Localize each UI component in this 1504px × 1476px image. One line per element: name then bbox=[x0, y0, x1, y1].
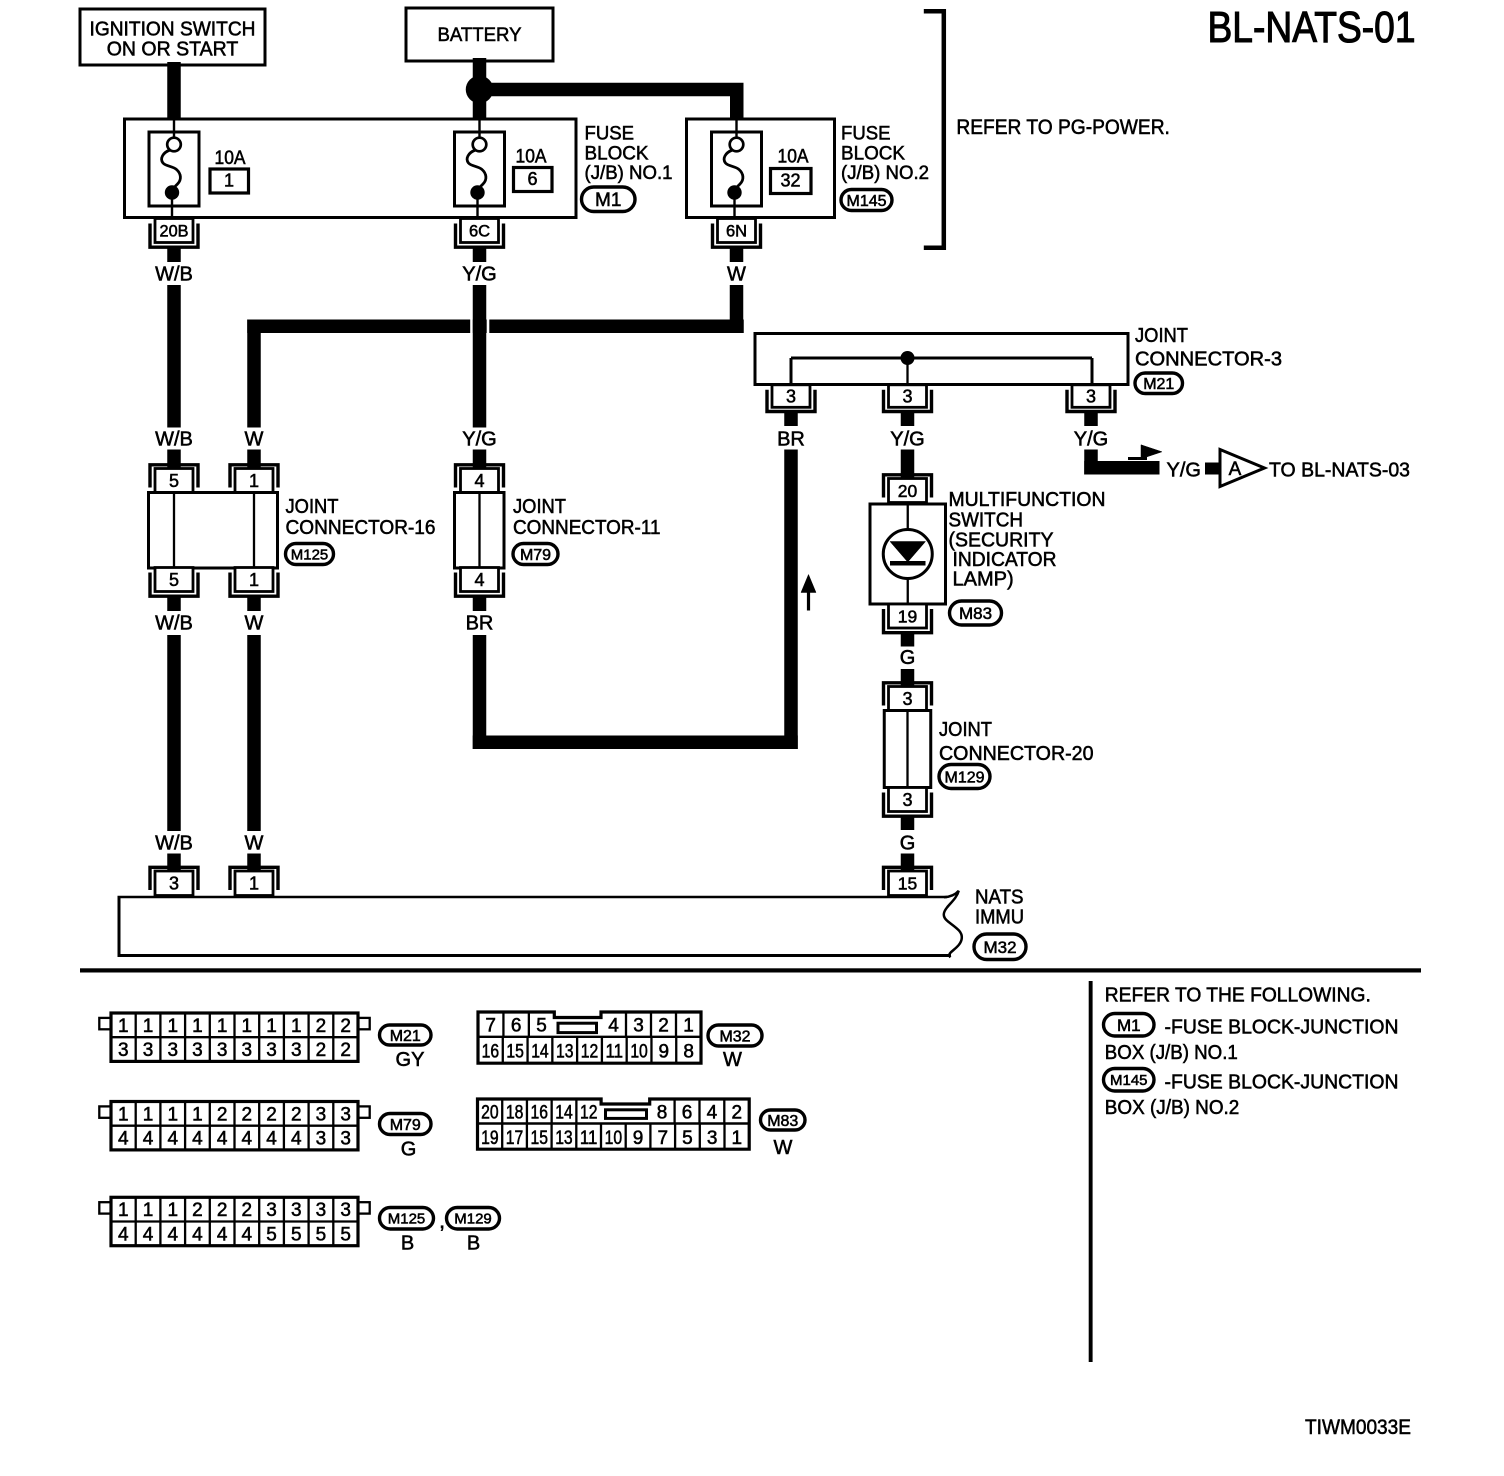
svg-text:IGNITION SWITCH: IGNITION SWITCH bbox=[90, 19, 256, 41]
svg-text:20: 20 bbox=[481, 1102, 499, 1123]
svg-text:3: 3 bbox=[266, 1200, 277, 1221]
svg-text:Y/G: Y/G bbox=[1167, 460, 1201, 482]
svg-text:3: 3 bbox=[707, 1128, 718, 1149]
svg-text:M32: M32 bbox=[983, 938, 1016, 957]
svg-text:6: 6 bbox=[682, 1102, 693, 1123]
svg-text:1: 1 bbox=[217, 1016, 228, 1037]
svg-text:19: 19 bbox=[481, 1128, 499, 1149]
svg-text:BL-NATS-01: BL-NATS-01 bbox=[1208, 4, 1416, 52]
svg-text:2: 2 bbox=[340, 1040, 351, 1061]
svg-text:ON OR START: ON OR START bbox=[107, 39, 239, 61]
svg-text:2: 2 bbox=[316, 1016, 327, 1037]
svg-text:20: 20 bbox=[898, 481, 918, 501]
svg-text:Y/G: Y/G bbox=[462, 264, 496, 286]
svg-text:B: B bbox=[401, 1233, 414, 1255]
svg-text:1: 1 bbox=[192, 1016, 203, 1037]
svg-text:5: 5 bbox=[536, 1016, 547, 1037]
svg-text:Y/G: Y/G bbox=[890, 429, 924, 451]
svg-text:2: 2 bbox=[242, 1104, 253, 1125]
svg-text:1: 1 bbox=[192, 1104, 203, 1125]
svg-text:3: 3 bbox=[192, 1040, 203, 1061]
svg-text:3: 3 bbox=[242, 1040, 253, 1061]
svg-text:CONNECTOR-20: CONNECTOR-20 bbox=[939, 743, 1094, 765]
svg-text:11: 11 bbox=[580, 1128, 598, 1149]
svg-text:W: W bbox=[774, 1137, 793, 1159]
svg-text:Y/G: Y/G bbox=[1074, 429, 1108, 451]
svg-text:1: 1 bbox=[242, 1016, 253, 1037]
svg-text:BR: BR bbox=[777, 429, 805, 451]
svg-text:1: 1 bbox=[249, 874, 259, 894]
svg-text:16: 16 bbox=[531, 1102, 549, 1123]
svg-text:M129: M129 bbox=[944, 769, 984, 786]
svg-text:1: 1 bbox=[167, 1200, 178, 1221]
svg-text:W: W bbox=[245, 613, 264, 635]
svg-text:(J/B) NO.2: (J/B) NO.2 bbox=[841, 162, 929, 184]
svg-text:3: 3 bbox=[291, 1200, 302, 1221]
svg-text:W/B: W/B bbox=[155, 613, 193, 635]
svg-text:M1: M1 bbox=[595, 190, 621, 211]
svg-text:15: 15 bbox=[898, 874, 917, 894]
svg-text:MULTIFUNCTION: MULTIFUNCTION bbox=[949, 489, 1106, 511]
svg-text:CONNECTOR-16: CONNECTOR-16 bbox=[286, 517, 436, 539]
svg-text:3: 3 bbox=[316, 1200, 327, 1221]
svg-text:M79: M79 bbox=[390, 1117, 421, 1134]
svg-text:10A: 10A bbox=[215, 148, 246, 169]
svg-text:4: 4 bbox=[474, 570, 484, 590]
svg-text:REFER TO THE FOLLOWING.: REFER TO THE FOLLOWING. bbox=[1105, 985, 1371, 1007]
svg-text:-FUSE BLOCK-JUNCTION: -FUSE BLOCK-JUNCTION bbox=[1165, 1072, 1399, 1094]
svg-text:4: 4 bbox=[118, 1129, 129, 1150]
svg-text:IMMU: IMMU bbox=[975, 907, 1024, 929]
svg-text:2: 2 bbox=[291, 1104, 302, 1125]
svg-text:14: 14 bbox=[555, 1102, 573, 1123]
svg-text:5: 5 bbox=[169, 570, 179, 590]
svg-text:3: 3 bbox=[340, 1200, 351, 1221]
svg-text:M83: M83 bbox=[959, 604, 992, 623]
svg-text:3: 3 bbox=[633, 1016, 644, 1037]
svg-text:3: 3 bbox=[291, 1040, 302, 1061]
svg-text:10A: 10A bbox=[516, 147, 547, 168]
svg-text:M83: M83 bbox=[767, 1113, 798, 1130]
svg-text:3: 3 bbox=[1086, 387, 1096, 407]
svg-text:1: 1 bbox=[143, 1104, 154, 1125]
svg-text:1: 1 bbox=[732, 1128, 743, 1149]
svg-text:M129: M129 bbox=[454, 1211, 492, 1228]
svg-text:G: G bbox=[401, 1139, 417, 1161]
svg-text:7: 7 bbox=[485, 1016, 496, 1037]
svg-text:3: 3 bbox=[902, 790, 912, 810]
svg-text:M21: M21 bbox=[1143, 376, 1174, 393]
svg-text:3: 3 bbox=[217, 1040, 228, 1061]
svg-text:M145: M145 bbox=[846, 193, 886, 210]
svg-text:15: 15 bbox=[506, 1042, 524, 1063]
svg-text:TO BL-NATS-03: TO BL-NATS-03 bbox=[1269, 460, 1410, 482]
svg-text:JOINT: JOINT bbox=[939, 719, 992, 741]
svg-text:4: 4 bbox=[192, 1129, 203, 1150]
svg-text:6: 6 bbox=[511, 1016, 522, 1037]
svg-text:CONNECTOR-11: CONNECTOR-11 bbox=[513, 517, 661, 539]
svg-text:1: 1 bbox=[143, 1016, 154, 1037]
svg-text:4: 4 bbox=[167, 1224, 178, 1245]
svg-text:1: 1 bbox=[118, 1200, 129, 1221]
svg-text:,: , bbox=[439, 1208, 445, 1233]
svg-text:4: 4 bbox=[118, 1224, 129, 1245]
svg-text:10A: 10A bbox=[778, 147, 809, 168]
svg-text:4: 4 bbox=[474, 471, 484, 491]
svg-text:3: 3 bbox=[118, 1040, 129, 1061]
svg-text:3: 3 bbox=[902, 387, 912, 407]
svg-text:7: 7 bbox=[657, 1128, 668, 1149]
svg-text:JOINT: JOINT bbox=[513, 496, 566, 518]
svg-text:W: W bbox=[245, 429, 264, 451]
svg-text:M79: M79 bbox=[520, 547, 551, 564]
svg-text:M125: M125 bbox=[388, 1211, 426, 1228]
svg-text:4: 4 bbox=[143, 1224, 154, 1245]
svg-text:8: 8 bbox=[683, 1042, 694, 1063]
svg-text:M125: M125 bbox=[291, 546, 329, 563]
svg-text:6N: 6N bbox=[726, 222, 747, 240]
svg-text:2: 2 bbox=[217, 1200, 228, 1221]
svg-text:5: 5 bbox=[340, 1224, 351, 1245]
svg-text:2: 2 bbox=[340, 1016, 351, 1037]
svg-text:GY: GY bbox=[396, 1049, 425, 1071]
svg-text:G: G bbox=[900, 647, 916, 669]
svg-text:3: 3 bbox=[169, 874, 179, 894]
svg-text:1: 1 bbox=[167, 1104, 178, 1125]
svg-text:B: B bbox=[467, 1233, 480, 1255]
svg-text:M21: M21 bbox=[390, 1028, 421, 1045]
svg-text:3: 3 bbox=[340, 1104, 351, 1125]
svg-text:3: 3 bbox=[266, 1040, 277, 1061]
svg-text:32: 32 bbox=[780, 171, 800, 191]
svg-text:CONNECTOR-3: CONNECTOR-3 bbox=[1135, 349, 1282, 371]
svg-text:2: 2 bbox=[732, 1102, 743, 1123]
svg-text:W/B: W/B bbox=[155, 429, 193, 451]
svg-text:4: 4 bbox=[291, 1129, 302, 1150]
svg-text:2: 2 bbox=[217, 1104, 228, 1125]
svg-text:3: 3 bbox=[167, 1040, 178, 1061]
svg-text:2: 2 bbox=[242, 1200, 253, 1221]
svg-text:8: 8 bbox=[657, 1102, 668, 1123]
svg-text:W/B: W/B bbox=[155, 833, 193, 855]
svg-text:14: 14 bbox=[531, 1042, 549, 1063]
svg-text:1: 1 bbox=[249, 471, 259, 491]
svg-text:BATTERY: BATTERY bbox=[438, 24, 522, 46]
svg-text:TIWM0033E: TIWM0033E bbox=[1305, 1416, 1411, 1439]
svg-text:3: 3 bbox=[340, 1129, 351, 1150]
svg-text:5: 5 bbox=[291, 1224, 302, 1245]
svg-text:6: 6 bbox=[527, 169, 537, 189]
svg-text:BR: BR bbox=[466, 613, 494, 635]
svg-text:5: 5 bbox=[266, 1224, 277, 1245]
svg-text:LAMP): LAMP) bbox=[953, 569, 1014, 591]
svg-text:3: 3 bbox=[902, 689, 912, 709]
svg-text:M32: M32 bbox=[719, 1028, 750, 1045]
svg-text:6C: 6C bbox=[469, 222, 490, 240]
svg-text:4: 4 bbox=[217, 1129, 228, 1150]
svg-text:10: 10 bbox=[605, 1128, 623, 1149]
svg-text:1: 1 bbox=[249, 570, 259, 590]
svg-text:3: 3 bbox=[316, 1104, 327, 1125]
svg-text:4: 4 bbox=[242, 1129, 253, 1150]
svg-text:-FUSE BLOCK-JUNCTION: -FUSE BLOCK-JUNCTION bbox=[1165, 1017, 1399, 1039]
svg-text:1: 1 bbox=[224, 171, 234, 191]
svg-text:4: 4 bbox=[608, 1016, 619, 1037]
svg-text:1: 1 bbox=[118, 1016, 129, 1037]
svg-text:FUSE: FUSE bbox=[841, 123, 891, 145]
svg-text:19: 19 bbox=[898, 606, 917, 626]
svg-text:JOINT: JOINT bbox=[1135, 325, 1188, 347]
svg-text:12: 12 bbox=[580, 1102, 598, 1123]
svg-text:18: 18 bbox=[506, 1102, 524, 1123]
svg-text:4: 4 bbox=[167, 1129, 178, 1150]
svg-text:BOX (J/B) NO.2: BOX (J/B) NO.2 bbox=[1105, 1097, 1240, 1119]
svg-text:4: 4 bbox=[217, 1224, 228, 1245]
svg-text:Y/G: Y/G bbox=[462, 429, 496, 451]
svg-text:1: 1 bbox=[167, 1016, 178, 1037]
svg-text:12: 12 bbox=[581, 1042, 599, 1063]
svg-text:BOX (J/B) NO.1: BOX (J/B) NO.1 bbox=[1105, 1042, 1238, 1064]
svg-text:3: 3 bbox=[316, 1129, 327, 1150]
svg-text:13: 13 bbox=[555, 1128, 573, 1149]
svg-text:5: 5 bbox=[169, 471, 179, 491]
svg-text:15: 15 bbox=[531, 1128, 549, 1149]
svg-text:SWITCH: SWITCH bbox=[949, 510, 1024, 532]
svg-text:W: W bbox=[727, 264, 746, 286]
svg-text:3: 3 bbox=[786, 387, 796, 407]
svg-text:2: 2 bbox=[192, 1200, 203, 1221]
svg-text:M145: M145 bbox=[1110, 1072, 1148, 1089]
svg-text:FUSE: FUSE bbox=[585, 123, 635, 145]
svg-text:5: 5 bbox=[682, 1128, 693, 1149]
svg-text:11: 11 bbox=[606, 1042, 624, 1063]
svg-text:2: 2 bbox=[658, 1016, 669, 1037]
svg-text:10: 10 bbox=[630, 1042, 648, 1063]
svg-text:5: 5 bbox=[316, 1224, 327, 1245]
svg-text:4: 4 bbox=[143, 1129, 154, 1150]
svg-text:1: 1 bbox=[266, 1016, 277, 1037]
svg-text:1: 1 bbox=[118, 1104, 129, 1125]
svg-text:9: 9 bbox=[633, 1128, 644, 1149]
svg-text:W: W bbox=[245, 833, 264, 855]
svg-text:W: W bbox=[723, 1049, 742, 1071]
svg-text:REFER TO PG-POWER.: REFER TO PG-POWER. bbox=[956, 116, 1170, 139]
svg-text:A: A bbox=[1229, 459, 1242, 480]
svg-text:2: 2 bbox=[316, 1040, 327, 1061]
svg-text:3: 3 bbox=[143, 1040, 154, 1061]
svg-text:M1: M1 bbox=[1117, 1016, 1141, 1035]
svg-text:4: 4 bbox=[707, 1102, 718, 1123]
svg-text:20B: 20B bbox=[160, 222, 189, 240]
svg-text:1: 1 bbox=[291, 1016, 302, 1037]
svg-text:1: 1 bbox=[683, 1016, 694, 1037]
svg-text:13: 13 bbox=[556, 1042, 574, 1063]
svg-text:G: G bbox=[900, 833, 916, 855]
svg-text:9: 9 bbox=[659, 1042, 670, 1063]
svg-text:JOINT: JOINT bbox=[286, 496, 339, 518]
svg-text:4: 4 bbox=[266, 1129, 277, 1150]
svg-text:1: 1 bbox=[143, 1200, 154, 1221]
svg-text:4: 4 bbox=[192, 1224, 203, 1245]
svg-text:17: 17 bbox=[506, 1128, 524, 1149]
svg-text:16: 16 bbox=[482, 1042, 500, 1063]
svg-text:W/B: W/B bbox=[155, 264, 193, 286]
svg-text:(J/B) NO.1: (J/B) NO.1 bbox=[585, 162, 673, 184]
svg-text:4: 4 bbox=[242, 1224, 253, 1245]
svg-text:NATS: NATS bbox=[975, 887, 1024, 909]
svg-text:2: 2 bbox=[266, 1104, 277, 1125]
